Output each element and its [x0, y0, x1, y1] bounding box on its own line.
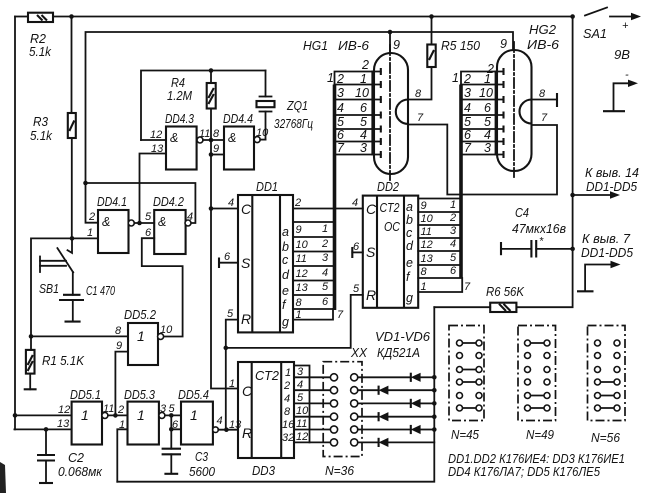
svg-text:g: g	[406, 291, 413, 305]
node junction: SB1 node (R3/R1/SB1/DD4.1-1)	[70, 236, 75, 241]
jumper block N=56	[588, 326, 626, 446]
wire: R3 top lead	[71, 17, 73, 114]
svg-text:b: b	[282, 240, 289, 254]
indicator tube HG1	[374, 45, 408, 180]
svg-text:CT2: CT2	[380, 201, 400, 215]
minus terminal arrow	[603, 69, 638, 111]
resistor R1	[26, 336, 35, 389]
wire: DD5.4 output to DD3 R pin 13	[218, 429, 238, 431]
wire: DD5.1 pin 12 input	[15, 414, 72, 416]
ground for C2	[39, 482, 53, 484]
svg-text:К выв. 14: К выв. 14	[585, 166, 639, 180]
svg-text:6: 6	[145, 227, 152, 239]
diode VD1	[358, 373, 435, 382]
connector XX dashed outline	[323, 362, 362, 457]
svg-text:R2: R2	[30, 32, 46, 46]
svg-text:8: 8	[421, 266, 428, 278]
svg-text:1: 1	[421, 281, 427, 293]
svg-text:8: 8	[213, 128, 220, 140]
pushbutton SB1	[40, 238, 73, 294]
pin 3 output bubble DD5.3	[159, 412, 165, 418]
node junction: C4 tap on rail	[570, 247, 575, 252]
svg-text:6: 6	[337, 128, 344, 142]
wire: DD5.3 output to DD5.4 pins 5,6	[165, 414, 181, 416]
svg-text:3: 3	[322, 252, 329, 264]
svg-text:1: 1	[87, 227, 93, 239]
wire: DD4.2 pin 6 down to DD5.2 output	[142, 238, 183, 336]
svg-text:6: 6	[450, 265, 457, 277]
svg-text:C1 470: C1 470	[86, 284, 115, 298]
resistor R2	[28, 13, 53, 22]
svg-text:13: 13	[57, 418, 70, 430]
jumper block N=49	[518, 326, 556, 443]
svg-text:a: a	[406, 200, 413, 214]
svg-text:2: 2	[88, 211, 95, 223]
node junction: DD5.2 pin9 riser joins	[113, 413, 118, 418]
svg-text:7: 7	[337, 309, 344, 321]
svg-text:3: 3	[464, 86, 471, 100]
wire: top +9V rail left lead into R2	[15, 16, 28, 18]
pin 11 output bubble DD4.3	[197, 137, 203, 143]
resistor R5	[427, 17, 435, 68]
svg-text:R6 56K: R6 56K	[486, 285, 525, 299]
pin 4 output bubble DD4.2	[185, 220, 191, 226]
counter DD2	[363, 180, 418, 308]
ground for R1	[24, 388, 37, 390]
svg-text:10: 10	[296, 239, 309, 251]
wire: DD1 pin2 output to DD2 C pin4	[293, 208, 363, 210]
svg-text:7: 7	[464, 141, 472, 155]
diode VD5	[358, 425, 435, 434]
wire: HG1 pin 9 riser	[389, 32, 391, 53]
pin 11 output bubble DD5.1	[102, 412, 108, 418]
wire: DD5.1 output to DD5.3 pin 2	[108, 414, 128, 416]
gate DD4.2	[153, 195, 186, 254]
node junction: DD5.4 pin5/6 tie	[169, 413, 174, 418]
svg-text:e: e	[406, 256, 413, 270]
svg-text:11: 11	[103, 403, 114, 415]
svg-text:XX: XX	[350, 346, 368, 360]
scan smudge bottom left corner	[0, 462, 6, 493]
svg-text:1: 1	[190, 407, 198, 423]
arrow to pin 14 DD1-DD5	[573, 166, 639, 199]
svg-text:КД521А: КД521А	[377, 346, 420, 360]
svg-text:C: C	[241, 201, 252, 217]
svg-text:N=36: N=36	[325, 464, 354, 478]
svg-text:13: 13	[229, 419, 242, 431]
svg-text:7: 7	[337, 141, 345, 155]
indicator tube HG2	[497, 42, 532, 177]
svg-text:-: -	[625, 69, 629, 81]
svg-text:R: R	[241, 311, 251, 327]
svg-text:6: 6	[172, 419, 179, 431]
svg-text:12: 12	[296, 431, 308, 443]
svg-text:4: 4	[217, 415, 223, 427]
svg-text:9: 9	[296, 224, 302, 236]
node junction: left border to DD5.1 pin12	[13, 413, 18, 418]
svg-text:11: 11	[296, 418, 307, 430]
wire: DD5.1 pin 13 input	[14, 428, 71, 430]
diode VD3	[358, 399, 435, 408]
svg-text:6: 6	[224, 251, 231, 263]
svg-text:CT2: CT2	[255, 369, 279, 383]
counter DD1	[238, 180, 293, 332]
svg-text:C3: C3	[195, 450, 208, 464]
svg-text:DD5.4: DD5.4	[178, 388, 209, 402]
svg-text:4: 4	[484, 128, 491, 142]
node junction: R4 top	[209, 68, 214, 73]
svg-text:OC: OC	[384, 220, 401, 234]
svg-text:5: 5	[360, 115, 367, 129]
svg-text:R: R	[242, 425, 252, 441]
DD3 output pin ladder	[294, 366, 310, 444]
svg-text:DD4.4: DD4.4	[223, 112, 253, 126]
wires: DD3 outputs to connector XX	[294, 377, 330, 442]
svg-text:DD2: DD2	[377, 180, 399, 194]
svg-text:R5 150: R5 150	[441, 39, 480, 53]
svg-text:9: 9	[213, 143, 219, 155]
svg-text:c: c	[282, 253, 289, 267]
svg-text:2: 2	[449, 212, 456, 224]
indicator tube HG1 pin table	[327, 58, 381, 158]
svg-text:10: 10	[160, 324, 173, 336]
node junction: C2 tap on pin13 wire	[44, 427, 49, 432]
svg-text:N=45: N=45	[451, 428, 479, 442]
svg-text:4: 4	[352, 197, 358, 209]
switch SA1	[570, 8, 641, 21]
wire: R4 loop top from DD4.3 pin12 riser to ZQ1 top	[141, 71, 266, 141]
svg-text:VD1-VD6: VD1-VD6	[375, 330, 430, 344]
svg-text:8: 8	[115, 325, 122, 337]
svg-text:1: 1	[322, 223, 328, 235]
resistor R6	[434, 303, 516, 312]
wire: DD5.3 pin 1 down to bottom bus wire	[117, 429, 127, 481]
capacitor C2	[37, 429, 55, 483]
svg-text:К выв. 7: К выв. 7	[582, 232, 631, 246]
svg-text:d: d	[282, 268, 290, 282]
svg-text:DD5.2: DD5.2	[124, 308, 156, 322]
svg-text:11: 11	[199, 128, 210, 140]
svg-text:6: 6	[353, 241, 360, 253]
svg-text:32: 32	[282, 432, 294, 444]
wire: reset net horizontal to DD2 R	[226, 295, 363, 348]
diode VD2	[358, 386, 435, 395]
svg-text:1: 1	[229, 378, 235, 390]
gate DD5.4	[178, 388, 213, 445]
svg-text:5: 5	[484, 115, 491, 129]
wire: HG1 pin 8 to R5	[408, 67, 432, 100]
svg-text:3: 3	[337, 86, 344, 100]
svg-text:1: 1	[137, 407, 145, 423]
node junction: reset net joins	[224, 427, 229, 432]
svg-text:2: 2	[463, 72, 471, 86]
svg-text:12: 12	[58, 404, 70, 416]
svg-text:5: 5	[297, 392, 304, 404]
svg-text:N=56: N=56	[591, 431, 620, 445]
svg-text:1: 1	[452, 71, 459, 85]
connector XX pins right column	[351, 374, 358, 446]
wire: diode bus vertical and bottom return wire	[117, 307, 434, 482]
svg-text:DD1: DD1	[256, 180, 278, 194]
svg-text:1: 1	[327, 71, 334, 85]
svg-text:1: 1	[285, 367, 291, 379]
svg-text:ZQ1: ZQ1	[286, 99, 308, 113]
svg-text:+: +	[622, 20, 629, 32]
jumper block N=45	[449, 326, 484, 443]
DD2 segment ladder rows	[418, 199, 471, 294]
svg-text:a: a	[282, 225, 289, 239]
wire: left border vertical from top rail down to DD5.1 inputs	[14, 17, 16, 430]
svg-text:g: g	[282, 315, 289, 329]
svg-text:5.1k: 5.1k	[30, 129, 53, 143]
svg-text:HG1: HG1	[303, 39, 328, 53]
svg-text:C: C	[242, 383, 253, 399]
svg-text:7: 7	[541, 112, 548, 124]
svg-text:6: 6	[464, 128, 471, 142]
svg-text:5: 5	[227, 308, 234, 320]
wire: reset net vertical DD1/DD2 R to DD3 R	[226, 320, 238, 430]
svg-text:d: d	[406, 239, 414, 253]
svg-text:4: 4	[450, 238, 456, 250]
svg-text:6: 6	[322, 296, 329, 308]
svg-text:5: 5	[450, 252, 457, 264]
svg-text:5: 5	[353, 283, 360, 295]
gate DD4.3	[165, 112, 197, 170]
svg-text:R: R	[366, 287, 376, 303]
wire: main clock vertical from R4 bottom down to DD3 C input	[211, 109, 238, 389]
svg-text:DD1-DD5: DD1-DD5	[586, 180, 637, 194]
svg-text:R3: R3	[33, 115, 48, 129]
svg-text:3: 3	[297, 366, 304, 378]
svg-text:5: 5	[337, 115, 344, 129]
svg-text:10: 10	[296, 405, 309, 417]
gate DD5.2	[124, 308, 158, 365]
svg-text:7: 7	[417, 112, 424, 124]
connector XX pins left column	[330, 374, 337, 446]
pin 4 output bubble DD5.4	[213, 427, 219, 433]
svg-text:8: 8	[284, 406, 291, 418]
svg-text:1: 1	[137, 328, 145, 344]
wire: DD5.2 pin 9 down to DD5.1 output node	[115, 352, 128, 416]
node junction: reset net T	[224, 346, 229, 351]
svg-text:8: 8	[296, 297, 303, 309]
wire: DD5.4 pin 6 loop down to C3	[171, 415, 181, 448]
svg-text:DD4.1: DD4.1	[97, 195, 127, 209]
svg-text:3: 3	[484, 141, 491, 155]
node junction: pin6 tie	[169, 427, 174, 432]
bus: DD1 to HG1 segment bundle	[333, 85, 337, 311]
wire: DD2 S pin6 stub	[352, 251, 363, 253]
svg-text:S: S	[241, 255, 251, 271]
svg-text:HG2: HG2	[529, 23, 556, 37]
diode VD4	[358, 412, 435, 421]
gate DD5.1	[70, 388, 102, 445]
svg-text:9: 9	[393, 38, 400, 52]
svg-text:4: 4	[464, 101, 471, 115]
svg-text:2: 2	[336, 72, 344, 86]
wire: latch feedback DD4.2 out to DD4.1 pin2	[86, 183, 196, 223]
svg-text:2: 2	[294, 197, 301, 209]
wire: DD4.3 pin 13 input from latch output node	[140, 154, 167, 224]
terminal bar HG2 pin8	[556, 93, 558, 107]
svg-text:4: 4	[337, 101, 344, 115]
svg-text:SA1: SA1	[583, 27, 607, 41]
svg-text:&: &	[102, 215, 110, 229]
svg-text:R1 5.1K: R1 5.1K	[42, 354, 85, 368]
svg-text:S: S	[366, 244, 376, 260]
node junction: DD4.3 output / R4 bottom	[209, 138, 214, 143]
svg-text:32768Гц: 32768Гц	[274, 117, 313, 131]
svg-text:9В: 9В	[614, 48, 630, 62]
svg-text:6: 6	[360, 101, 367, 115]
svg-text:5.1k: 5.1k	[29, 45, 52, 59]
resistor R3	[68, 113, 76, 138]
svg-text:13: 13	[421, 253, 434, 265]
svg-text:4: 4	[284, 393, 290, 405]
svg-text:8: 8	[539, 88, 546, 100]
svg-text:13: 13	[296, 282, 309, 294]
wire: DD1 C pin4 input	[211, 208, 238, 210]
capacitor C4	[501, 236, 573, 258]
node junction: R1 top / DD5.2 pin8	[29, 334, 34, 339]
svg-text:C: C	[366, 201, 377, 217]
counter DD3	[238, 362, 295, 478]
svg-text:4: 4	[187, 211, 193, 223]
wire: inner anode rail with corner down to DD4 latch region	[86, 32, 514, 183]
svg-text:SB1: SB1	[39, 282, 59, 296]
svg-text:5: 5	[322, 281, 329, 293]
wire: DD4.3 pin 12 input	[141, 139, 166, 141]
svg-text:3: 3	[360, 141, 367, 155]
svg-text:C2: C2	[68, 451, 84, 465]
svg-text:9: 9	[500, 37, 507, 51]
wire: +9V rail from SA1 down right side to R6	[516, 17, 572, 308]
svg-text:2: 2	[486, 62, 494, 76]
terminal bar DD1 S	[218, 258, 220, 269]
gate DD4.4	[223, 112, 254, 170]
ground for C1	[65, 321, 81, 323]
svg-text:1: 1	[81, 407, 89, 423]
wire: R3 bottom lead down to SB1 node	[71, 138, 73, 238]
node junction: DD4.1 out / DD4.3 pin13 riser	[137, 221, 142, 226]
DD1 segment ladder rows	[293, 222, 344, 321]
svg-text:N=49: N=49	[526, 428, 554, 442]
svg-text:C4: C4	[515, 206, 529, 220]
svg-text:DD3: DD3	[252, 464, 275, 478]
svg-text:DD1-DD5: DD1-DD5	[581, 246, 633, 260]
ground for C3	[164, 473, 178, 475]
wire: DD4.3 output to DD4.4 pin 8	[203, 139, 224, 141]
wire: SB1 node jog left and down to R1 top	[31, 238, 72, 336]
wire: top rail from R2 to SA1	[53, 16, 573, 18]
wire: HG1 pin7 to HG2 pin7 common	[408, 125, 557, 195]
svg-text:2: 2	[117, 404, 124, 416]
arrow to pin 7 DD1-DD5	[577, 232, 633, 291]
node junction: R5 top on rail	[429, 14, 434, 19]
svg-text:&: &	[228, 131, 236, 145]
wire: DD5.2 pin 8 input	[31, 335, 128, 337]
svg-text:DD5.1: DD5.1	[70, 388, 101, 402]
gate DD4.1	[97, 195, 129, 253]
svg-text:1: 1	[296, 309, 302, 321]
svg-text:10: 10	[421, 213, 434, 225]
pin 10 output bubble DD4.4	[254, 137, 260, 143]
wire: DD4.1 output to DD4.2 pin5	[134, 222, 154, 224]
resistor R4	[207, 71, 216, 109]
svg-text:12: 12	[296, 268, 308, 280]
svg-text:DD4.3: DD4.3	[165, 112, 194, 126]
svg-text:R4: R4	[171, 76, 185, 90]
svg-text:b: b	[406, 213, 413, 227]
svg-text:*: *	[539, 236, 544, 248]
svg-text:9: 9	[421, 200, 427, 212]
node junctions on diode bus	[432, 375, 437, 380]
wire: DD4.4 output up to ZQ1 bottom	[260, 139, 265, 141]
svg-text:4: 4	[322, 267, 328, 279]
svg-text:3: 3	[450, 225, 457, 237]
svg-text:10: 10	[355, 86, 369, 100]
svg-text:5600: 5600	[189, 465, 215, 479]
svg-text:e: e	[282, 284, 289, 298]
svg-text:5: 5	[464, 115, 471, 129]
node junction: R3 top on rail	[69, 14, 74, 19]
svg-text:c: c	[406, 226, 413, 240]
svg-text:&: &	[158, 215, 166, 229]
svg-text:DD4.2: DD4.2	[153, 195, 184, 209]
svg-text:9: 9	[116, 340, 122, 352]
svg-text:5: 5	[169, 403, 176, 415]
svg-text:10: 10	[256, 127, 269, 139]
svg-text:7: 7	[464, 281, 471, 293]
svg-text:2: 2	[321, 238, 328, 250]
svg-text:11: 11	[296, 253, 307, 265]
svg-text:DD4 К176ЛА7; DD5 К176ЛЕ5: DD4 К176ЛА7; DD5 К176ЛЕ5	[448, 464, 601, 479]
svg-text:ИВ-6: ИВ-6	[338, 39, 369, 53]
svg-text:4: 4	[360, 128, 367, 142]
indicator tube HG2 pin table	[452, 62, 504, 158]
wire: DD4.1 pin 1 input from SB1 node	[72, 237, 98, 239]
svg-text:11: 11	[421, 226, 432, 238]
svg-text:5: 5	[145, 211, 152, 223]
wire: HG2 pin 8 stub	[532, 99, 558, 101]
svg-text:3: 3	[160, 403, 167, 415]
svg-text:4: 4	[297, 379, 303, 391]
svg-text:1: 1	[450, 199, 456, 211]
pin 10 output bubble DD5.2	[158, 334, 164, 340]
gate DD5.3	[124, 388, 159, 445]
node junction: DD4.4 pin9 tap	[209, 152, 214, 157]
svg-text:&: &	[170, 131, 178, 145]
svg-text:12: 12	[421, 239, 433, 251]
svg-text:DD5.3: DD5.3	[124, 388, 155, 402]
node junction: K vyv 14 tap	[570, 193, 575, 198]
svg-text:4: 4	[228, 197, 234, 209]
capacitor C3	[162, 449, 181, 474]
svg-text:1.2M: 1.2M	[167, 89, 193, 103]
svg-text:0.068мк: 0.068мк	[58, 465, 103, 479]
node junction: HG1 grid riser on inner rail	[388, 30, 393, 35]
svg-text:47мкx16в: 47мкx16в	[512, 222, 566, 236]
svg-text:8: 8	[415, 88, 422, 100]
terminal bar DD2 S	[351, 247, 353, 258]
bus: DD2 to HG2 segment bundle	[459, 85, 463, 279]
svg-text:2: 2	[283, 380, 290, 392]
svg-text:10: 10	[479, 86, 493, 100]
svg-text:1: 1	[360, 72, 367, 86]
svg-text:2: 2	[361, 58, 369, 72]
svg-text:6: 6	[484, 101, 491, 115]
diode VD6	[358, 438, 435, 447]
